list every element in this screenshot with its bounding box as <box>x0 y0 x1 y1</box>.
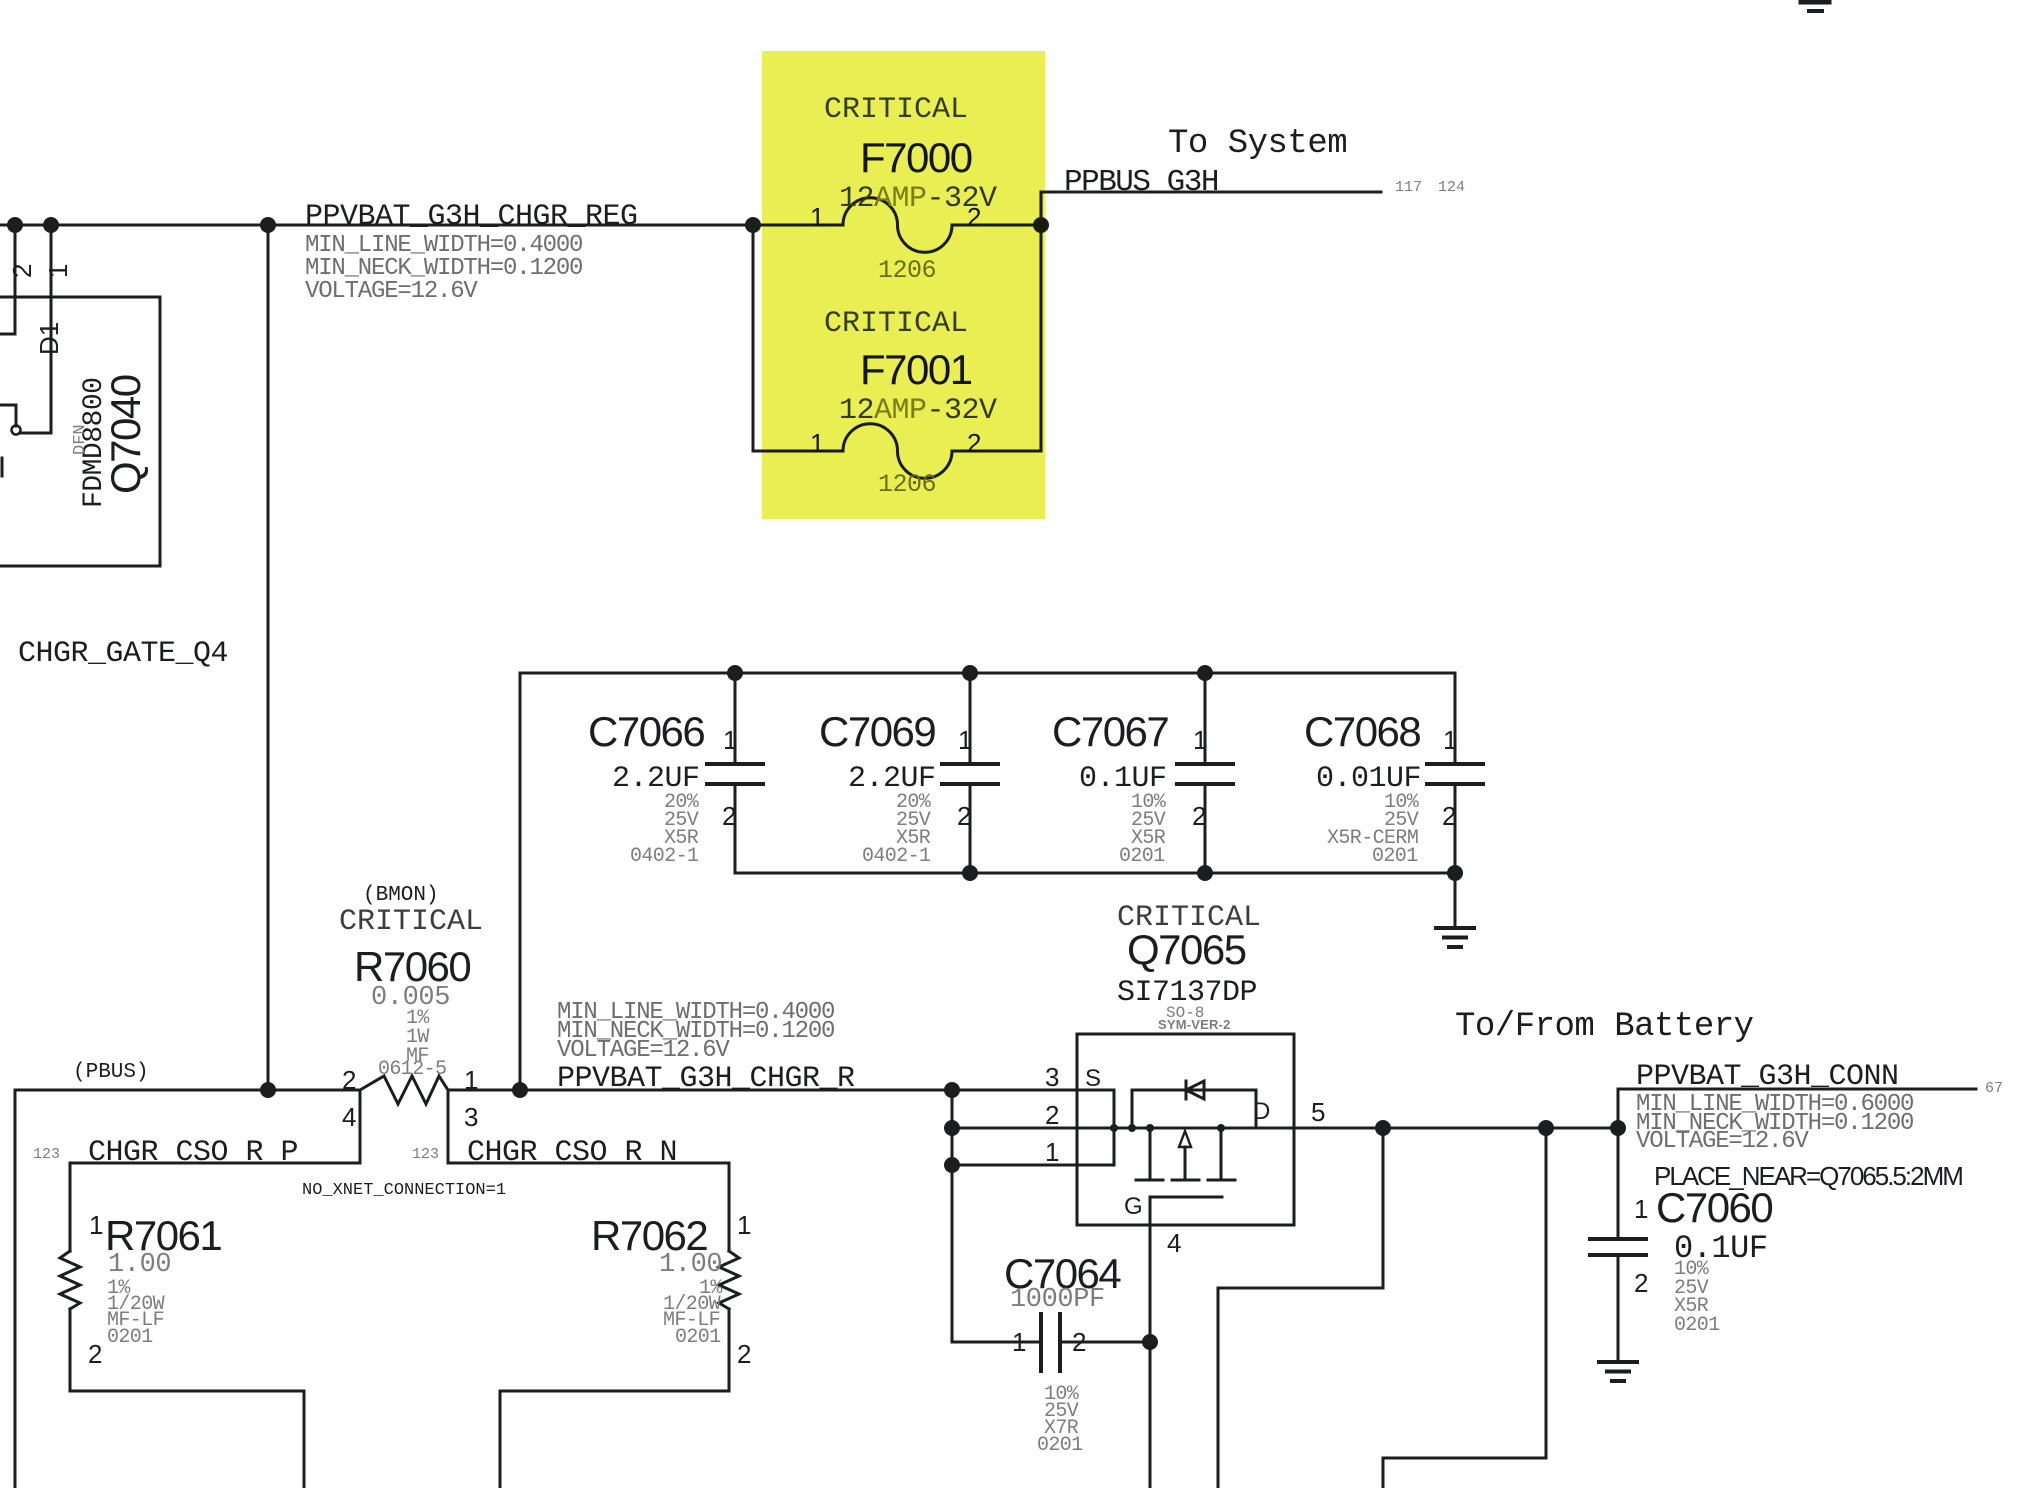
svg-text:To/From Battery: To/From Battery <box>1455 1008 1754 1046</box>
junction dots cap bank top <box>727 665 743 681</box>
svg-text:S: S <box>1085 1065 1101 1092</box>
fuse F7001 element <box>843 424 952 479</box>
wire C7060 bottom lead <box>1617 1255 1620 1362</box>
transistor Q7065 body diode symbol <box>1186 1081 1204 1099</box>
svg-text:124: 124 <box>1438 179 1465 196</box>
junction dots Q7065 pins <box>944 1120 960 1136</box>
resistor R7060 element <box>360 1076 448 1104</box>
svg-text:2: 2 <box>722 801 736 831</box>
svg-text:0402-1: 0402-1 <box>862 845 931 868</box>
wire Q7040 circle to pin1 <box>21 432 51 435</box>
svg-text:VOLTAGE=12.6V: VOLTAGE=12.6V <box>557 1037 730 1064</box>
wire R7062 top lead <box>728 1163 731 1251</box>
svg-text:0201: 0201 <box>1037 1434 1083 1457</box>
wire R7060 sense left <box>70 1090 360 1163</box>
wire cap bank bottom bus <box>735 872 1455 875</box>
wire F7001 left lead <box>753 450 843 453</box>
svg-text:1: 1 <box>723 725 737 755</box>
wire PPVBAT_G3H_CHGR_REG top rail <box>0 224 753 227</box>
svg-text:3: 3 <box>464 1102 478 1132</box>
svg-text:2: 2 <box>957 801 971 831</box>
svg-text:4: 4 <box>342 1102 356 1132</box>
svg-text:0201: 0201 <box>1119 845 1165 868</box>
svg-text:(BMON): (BMON) <box>363 884 439 907</box>
svg-text:1: 1 <box>1045 1137 1059 1167</box>
transistor Q7065 bulk arrow <box>1179 1131 1191 1179</box>
svg-text:0201: 0201 <box>675 1326 721 1349</box>
wire Q7065 pin 1 <box>952 1164 1114 1167</box>
svg-text:2: 2 <box>737 1339 751 1369</box>
svg-text:2: 2 <box>7 264 37 278</box>
svg-text:D1: D1 <box>34 322 64 355</box>
svg-text:1.00: 1.00 <box>108 1250 171 1280</box>
ground cap bank <box>1436 928 1474 947</box>
wire PBUS left rail <box>15 1089 360 1092</box>
svg-text:1: 1 <box>958 725 972 755</box>
svg-text:C7066: C7066 <box>588 708 704 755</box>
wire Q7040 internal stub <box>0 405 16 426</box>
wire R7061 top lead <box>69 1163 72 1251</box>
svg-text:Q7065: Q7065 <box>1127 926 1246 973</box>
svg-text:2: 2 <box>88 1339 102 1369</box>
svg-text:2: 2 <box>1072 1327 1086 1357</box>
svg-text:CRITICAL: CRITICAL <box>339 905 483 939</box>
ground top right partial <box>1801 2 1829 11</box>
junction dots Q7065 inner <box>1128 1124 1136 1132</box>
svg-text:2: 2 <box>1045 1100 1059 1130</box>
svg-text:1: 1 <box>737 1210 751 1240</box>
wire F7000 left lead <box>753 224 843 227</box>
transistor Q7065 gate bar <box>1151 1196 1222 1199</box>
wire Q7065 pins vertical <box>951 1090 954 1342</box>
svg-text:1.00: 1.00 <box>659 1250 722 1280</box>
transistor Q7065 body box <box>1077 1034 1294 1225</box>
transistor Q7040 pin circle <box>12 426 21 435</box>
svg-text:2: 2 <box>1634 1268 1648 1298</box>
capacitor C7068 element <box>1427 673 1483 873</box>
wire PPBUS_G3H stub <box>1041 192 1381 225</box>
wire cap bank ground stem <box>1454 873 1457 928</box>
svg-text:C7069: C7069 <box>819 708 935 755</box>
svg-text:117: 117 <box>1395 179 1422 196</box>
junction dots cap bank bottom <box>962 865 978 881</box>
wire PBUS left drop to bottom <box>14 1090 17 1488</box>
highlight F7000/F7001 critical <box>762 51 1045 519</box>
wire Q7040 pin 1 drop <box>50 225 53 433</box>
svg-text:1: 1 <box>89 1210 103 1240</box>
svg-text:0612-5: 0612-5 <box>378 1058 446 1081</box>
svg-text:C7067: C7067 <box>1052 708 1168 755</box>
wire F7001 right lead <box>952 450 1041 453</box>
svg-text:1: 1 <box>464 1065 478 1095</box>
svg-text:(PBUS): (PBUS) <box>73 1061 149 1084</box>
svg-text:123: 123 <box>412 1146 439 1163</box>
wire C7060 top lead <box>1617 1128 1620 1239</box>
svg-text:2: 2 <box>1442 801 1456 831</box>
resistor R7062 element <box>719 1251 739 1309</box>
fuse F7000 element <box>843 198 952 253</box>
svg-text:G: G <box>1124 1193 1143 1220</box>
svg-text:CHGR_GATE_Q4: CHGR_GATE_Q4 <box>18 637 228 671</box>
svg-text:CHGR_CSO_R_P: CHGR_CSO_R_P <box>88 1136 298 1170</box>
junction dots top rail <box>7 217 23 233</box>
capacitor C7067 element <box>1177 673 1233 873</box>
wire C7064 right lead <box>1060 1341 1150 1344</box>
svg-text:D: D <box>1253 1098 1270 1125</box>
junction dot C7064 gate <box>1142 1334 1158 1350</box>
svg-text:2: 2 <box>342 1065 356 1095</box>
svg-text:CHGR_CSO_R_N: CHGR_CSO_R_N <box>467 1136 677 1170</box>
svg-text:To System: To System <box>1168 125 1347 163</box>
wire fuse left drop <box>752 225 755 451</box>
svg-text:VOLTAGE=12.6V: VOLTAGE=12.6V <box>305 278 478 305</box>
wire fuse right drop <box>1040 225 1043 451</box>
resistor R7061 element <box>60 1251 80 1309</box>
wire Q7040 internal edge fragment <box>1 458 4 476</box>
transistor Q7040 box <box>0 297 160 566</box>
svg-text:SYM-VER-2: SYM-VER-2 <box>1158 1017 1231 1032</box>
transistor Q7065 channel bars <box>1150 1128 1221 1179</box>
wire R7062 bottom staircase <box>500 1309 729 1488</box>
svg-text:0402-1: 0402-1 <box>630 845 699 868</box>
capacitor C7066 element <box>707 673 763 873</box>
svg-text:1: 1 <box>1193 725 1207 755</box>
wire C7064 left lead <box>952 1341 1041 1344</box>
junction dots main rail <box>260 1082 276 1098</box>
svg-text:PPVBAT_G3H_CONN: PPVBAT_G3H_CONN <box>1636 1060 1899 1094</box>
wire PPVBAT_G3H_CONN stub <box>1618 1089 1976 1128</box>
svg-text:123: 123 <box>33 1146 60 1163</box>
wire Q7065 pin 2 <box>952 1127 1114 1130</box>
svg-text:PPVBAT_G3H_CHGR_R: PPVBAT_G3H_CHGR_R <box>557 1062 855 1096</box>
svg-text:5: 5 <box>1311 1097 1325 1127</box>
svg-text:C7068: C7068 <box>1304 708 1420 755</box>
svg-text:1: 1 <box>1634 1194 1648 1224</box>
svg-text:1000PF: 1000PF <box>1010 1285 1105 1315</box>
wire F7000 right lead <box>952 224 1041 227</box>
wire Q7065 gate line down <box>1149 1197 1152 1488</box>
transistor Q7065 body diode branch <box>1132 1090 1256 1128</box>
capacitor C7069 element <box>942 673 998 873</box>
wire PPVBAT_G3H_CHGR_R rail <box>448 1089 1114 1092</box>
ground C7060 <box>1599 1362 1637 1381</box>
svg-text:1: 1 <box>43 264 73 278</box>
junction dots battery rail <box>1375 1120 1391 1136</box>
svg-text:0201: 0201 <box>1372 845 1418 868</box>
wire R7061 bottom staircase <box>70 1309 304 1488</box>
wire Q7065 source bar <box>1113 1090 1116 1165</box>
wire Q7065 SD rail <box>1114 1127 1618 1130</box>
wire Q7065 drop to bottom left path <box>1218 1128 1383 1488</box>
transistor Q7065 channel segments <box>1136 1179 1235 1182</box>
wire cap bank left vertical <box>519 673 522 1090</box>
capacitor C7064 element <box>1041 1314 1060 1371</box>
svg-text:VOLTAGE=12.6V: VOLTAGE=12.6V <box>1636 1128 1809 1155</box>
svg-text:PPBUS_G3H: PPBUS_G3H <box>1064 165 1218 200</box>
capacitor C7060 element <box>1590 1239 1646 1255</box>
svg-text:2: 2 <box>1192 801 1206 831</box>
svg-text:0201: 0201 <box>107 1326 153 1349</box>
wire cap bank top bus <box>520 672 1455 675</box>
svg-text:NO_XNET_CONNECTION=1: NO_XNET_CONNECTION=1 <box>302 1181 506 1200</box>
svg-text:4: 4 <box>1167 1228 1181 1258</box>
svg-text:DFN: DFN <box>71 424 90 455</box>
svg-text:1: 1 <box>1443 725 1457 755</box>
wire Q7065 drop to bottom right path <box>1383 1128 1546 1488</box>
svg-text:0201: 0201 <box>1674 1314 1720 1337</box>
wire CHGR_GATE_Q4 vertical <box>267 225 270 1090</box>
svg-text:1: 1 <box>1012 1327 1026 1357</box>
svg-text:C7060: C7060 <box>1656 1184 1772 1231</box>
wire Q7040 pin 2 drop <box>0 225 15 334</box>
svg-text:3: 3 <box>1045 1062 1059 1092</box>
svg-text:PPVBAT_G3H_CHGR_REG: PPVBAT_G3H_CHGR_REG <box>305 200 638 234</box>
svg-text:67: 67 <box>1985 1080 2003 1097</box>
wire R7060 sense right <box>448 1090 729 1163</box>
